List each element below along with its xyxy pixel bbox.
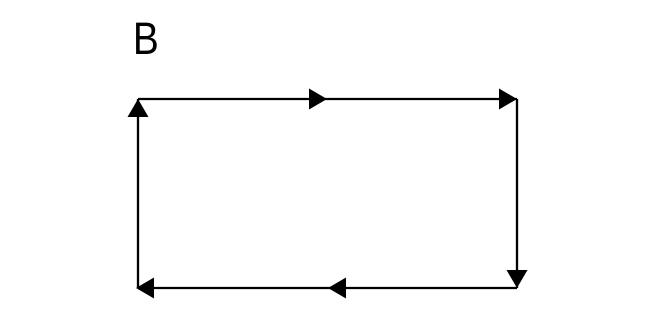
arrowhead left at bottom middle [328, 278, 346, 299]
svg-text:B: B [133, 13, 159, 64]
arrowhead down at bottom-right corner [507, 270, 528, 288]
arrowhead left at bottom-left corner [136, 278, 154, 299]
wire left edge [137, 99, 139, 288]
arrowhead up at top-left corner [128, 99, 149, 117]
wire top edge [138, 98, 517, 100]
wire right edge [516, 99, 518, 288]
arrowhead right at top-right corner [499, 89, 517, 110]
wire bottom edge [138, 287, 517, 289]
arrowhead right at top middle [309, 89, 327, 110]
